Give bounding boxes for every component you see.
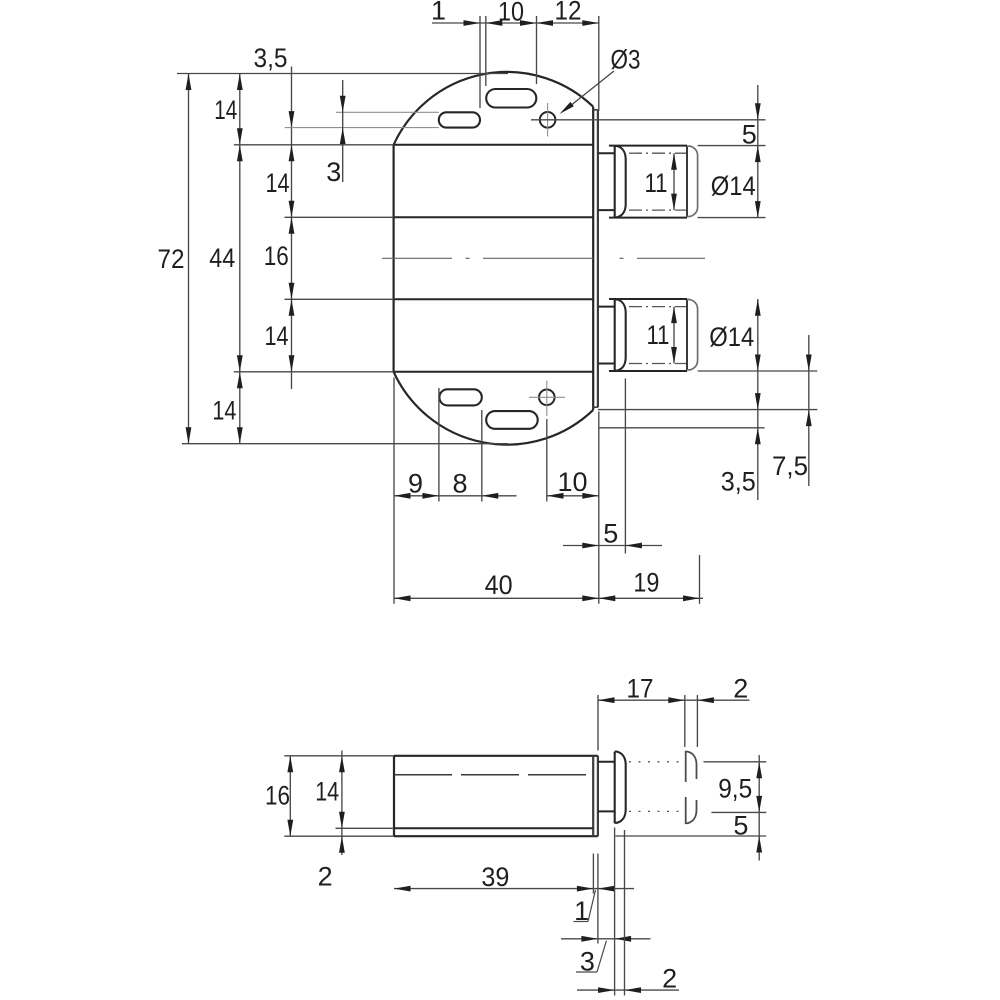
slot S4 bottom-middle (486, 411, 538, 429)
svg-text:9: 9 (408, 469, 423, 499)
side view body outline (394, 755, 598, 757)
dimension line 9/8/10 (bottom) (394, 495, 517, 497)
svg-text:3,5: 3,5 (721, 466, 756, 496)
dimension 3 (side) (561, 938, 651, 940)
svg-text:1: 1 (431, 0, 446, 26)
dimension 5 (plunger collar) (563, 545, 662, 547)
plunger top (magnet piston) (598, 152, 615, 154)
dimension line 1/10/12 (top) (432, 22, 599, 24)
svg-text:39: 39 (481, 862, 509, 892)
extension lines for top dims (479, 16, 481, 108)
slot S2 upper-left (439, 112, 480, 127)
svg-text:8: 8 (452, 469, 467, 499)
dimension 9,5/5 (side right) (758, 755, 760, 861)
svg-text:14: 14 (265, 321, 289, 351)
mounting plate edge (top view) (597, 110, 599, 407)
tangent extension line top (177, 73, 508, 75)
svg-text:2: 2 (733, 674, 748, 704)
svg-text:10: 10 (498, 0, 524, 27)
svg-text:3: 3 (326, 157, 341, 187)
dimension 16 (side) (289, 756, 291, 836)
travel phantom lines (629, 761, 684, 763)
latch body outline (top view) (394, 72, 594, 145)
vertical extension lines bottom (393, 378, 395, 604)
svg-text:11: 11 (647, 320, 670, 350)
slot S3 lower-left (439, 389, 481, 405)
screw hole top (540, 112, 556, 128)
vertical extension lines side bottom (592, 854, 594, 894)
dimension 3 (slot height) (342, 80, 344, 182)
flange extension lines left (234, 144, 394, 146)
side view plunger neck (598, 761, 615, 763)
side view base plate line (394, 827, 593, 829)
extension lines side top (597, 695, 599, 751)
leader Ø3 top hole (572, 71, 614, 105)
dimension 14/2 (side) (341, 751, 343, 856)
housing line upper (394, 216, 594, 218)
slot S2 extension lines (336, 111, 439, 113)
svg-text:17: 17 (627, 673, 654, 703)
flange boundary line bottom (394, 371, 594, 373)
svg-text:Ø14: Ø14 (709, 322, 754, 352)
extension line hole-center to right (531, 119, 766, 121)
svg-text:40: 40 (485, 570, 513, 600)
svg-text:7,5: 7,5 (772, 451, 808, 481)
svg-text:14: 14 (212, 396, 236, 426)
horizontal centerline (top view) (382, 257, 452, 259)
dimension 72 (overall height) (188, 74, 190, 444)
side view hidden line (394, 774, 592, 776)
svg-text:14: 14 (315, 776, 339, 806)
svg-text:Ø14: Ø14 (711, 171, 756, 201)
extension lines lower right (698, 370, 818, 372)
dimension 39/1 (side bottom) (394, 888, 634, 890)
flange boundary line top (394, 144, 594, 146)
dimension 5 and Ø14 (top plunger) (757, 85, 759, 218)
svg-text:14: 14 (266, 168, 290, 198)
dimension chain 14/44/14 (239, 74, 241, 444)
dimension 11 (top plunger) (673, 153, 675, 210)
dimension 40/19 (394, 597, 703, 599)
svg-text:3,5: 3,5 (254, 43, 288, 73)
svg-text:16: 16 (265, 781, 290, 811)
svg-text:2: 2 (318, 862, 333, 892)
dimension 11 (bottom plunger) (673, 307, 675, 364)
svg-text:72: 72 (158, 244, 185, 274)
dimension chain 3,5/14/16/14 (291, 67, 293, 390)
dimension 7,5 (808, 335, 810, 486)
svg-text:44: 44 (209, 243, 235, 273)
slot S1 top-middle (486, 89, 536, 108)
dimension 17/2 (side top) (598, 699, 750, 701)
extension lines side left (284, 755, 394, 757)
side view plunger head (615, 752, 626, 824)
svg-text:10: 10 (557, 467, 587, 497)
screw hole bottom crosshair (529, 396, 565, 398)
svg-text:Ø3: Ø3 (611, 45, 641, 75)
tangent extension line bottom (182, 443, 508, 445)
plunger bottom (magnet piston) (598, 306, 615, 308)
extension lines side right (704, 761, 767, 763)
svg-text:2: 2 (662, 964, 677, 994)
dimension Ø14 / 3,5 (bottom plunger column) (757, 299, 759, 500)
svg-text:14: 14 (214, 95, 237, 125)
svg-text:19: 19 (633, 568, 659, 598)
svg-text:11: 11 (645, 168, 668, 198)
plunger extended position (phantom cap) (686, 752, 697, 782)
housing line lower (394, 298, 594, 300)
svg-text:12: 12 (555, 0, 582, 26)
barrel extension lines right top (698, 145, 766, 147)
screw hole bottom (539, 390, 555, 406)
svg-text:5: 5 (603, 519, 618, 549)
screw hole top crosshair (547, 103, 549, 137)
svg-text:16: 16 (264, 241, 289, 271)
svg-text:9,5: 9,5 (718, 773, 752, 803)
dimension 2 (head thickness) (577, 989, 679, 991)
